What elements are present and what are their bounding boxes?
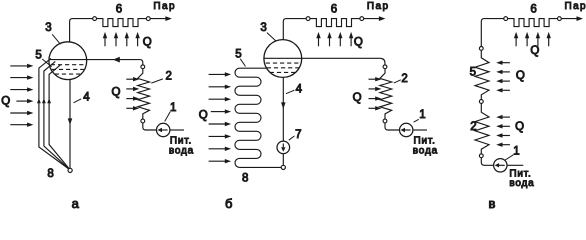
svg-text:6: 6 [331,3,337,15]
svg-text:8: 8 [242,173,248,185]
svg-text:3: 3 [45,22,51,34]
svg-text:Q: Q [1,96,10,108]
svg-text:7: 7 [295,129,301,141]
svg-text:Q: Q [199,110,208,122]
svg-text:6: 6 [116,3,122,15]
svg-text:вода: вода [509,178,534,189]
svg-text:Q: Q [530,45,539,57]
svg-text:3: 3 [260,22,266,34]
svg-text:5: 5 [35,49,41,61]
svg-text:Q: Q [516,70,525,82]
svg-text:4: 4 [83,92,90,104]
svg-text:1: 1 [513,146,519,158]
svg-text:6: 6 [530,3,536,15]
svg-text:2: 2 [401,73,407,85]
svg-text:Q: Q [515,121,524,133]
svg-text:Пар: Пар [565,1,586,12]
svg-text:2: 2 [470,121,476,133]
svg-text:в: в [488,196,495,209]
svg-text:Q: Q [143,37,152,49]
svg-text:вода: вода [169,146,194,157]
svg-text:б: б [225,196,232,209]
svg-text:4: 4 [296,84,303,96]
svg-text:Q: Q [354,37,363,49]
svg-text:1: 1 [419,109,425,121]
svg-text:Q: Q [112,87,121,99]
svg-text:Пар: Пар [367,1,390,12]
svg-text:Пар: Пар [153,1,176,12]
svg-text:1: 1 [170,102,176,114]
svg-text:8: 8 [47,168,53,180]
svg-text:вода: вода [413,146,438,157]
svg-text:2: 2 [165,71,171,83]
svg-text:Q: Q [353,92,362,104]
svg-text:5: 5 [470,66,476,78]
svg-text:а: а [72,196,80,209]
